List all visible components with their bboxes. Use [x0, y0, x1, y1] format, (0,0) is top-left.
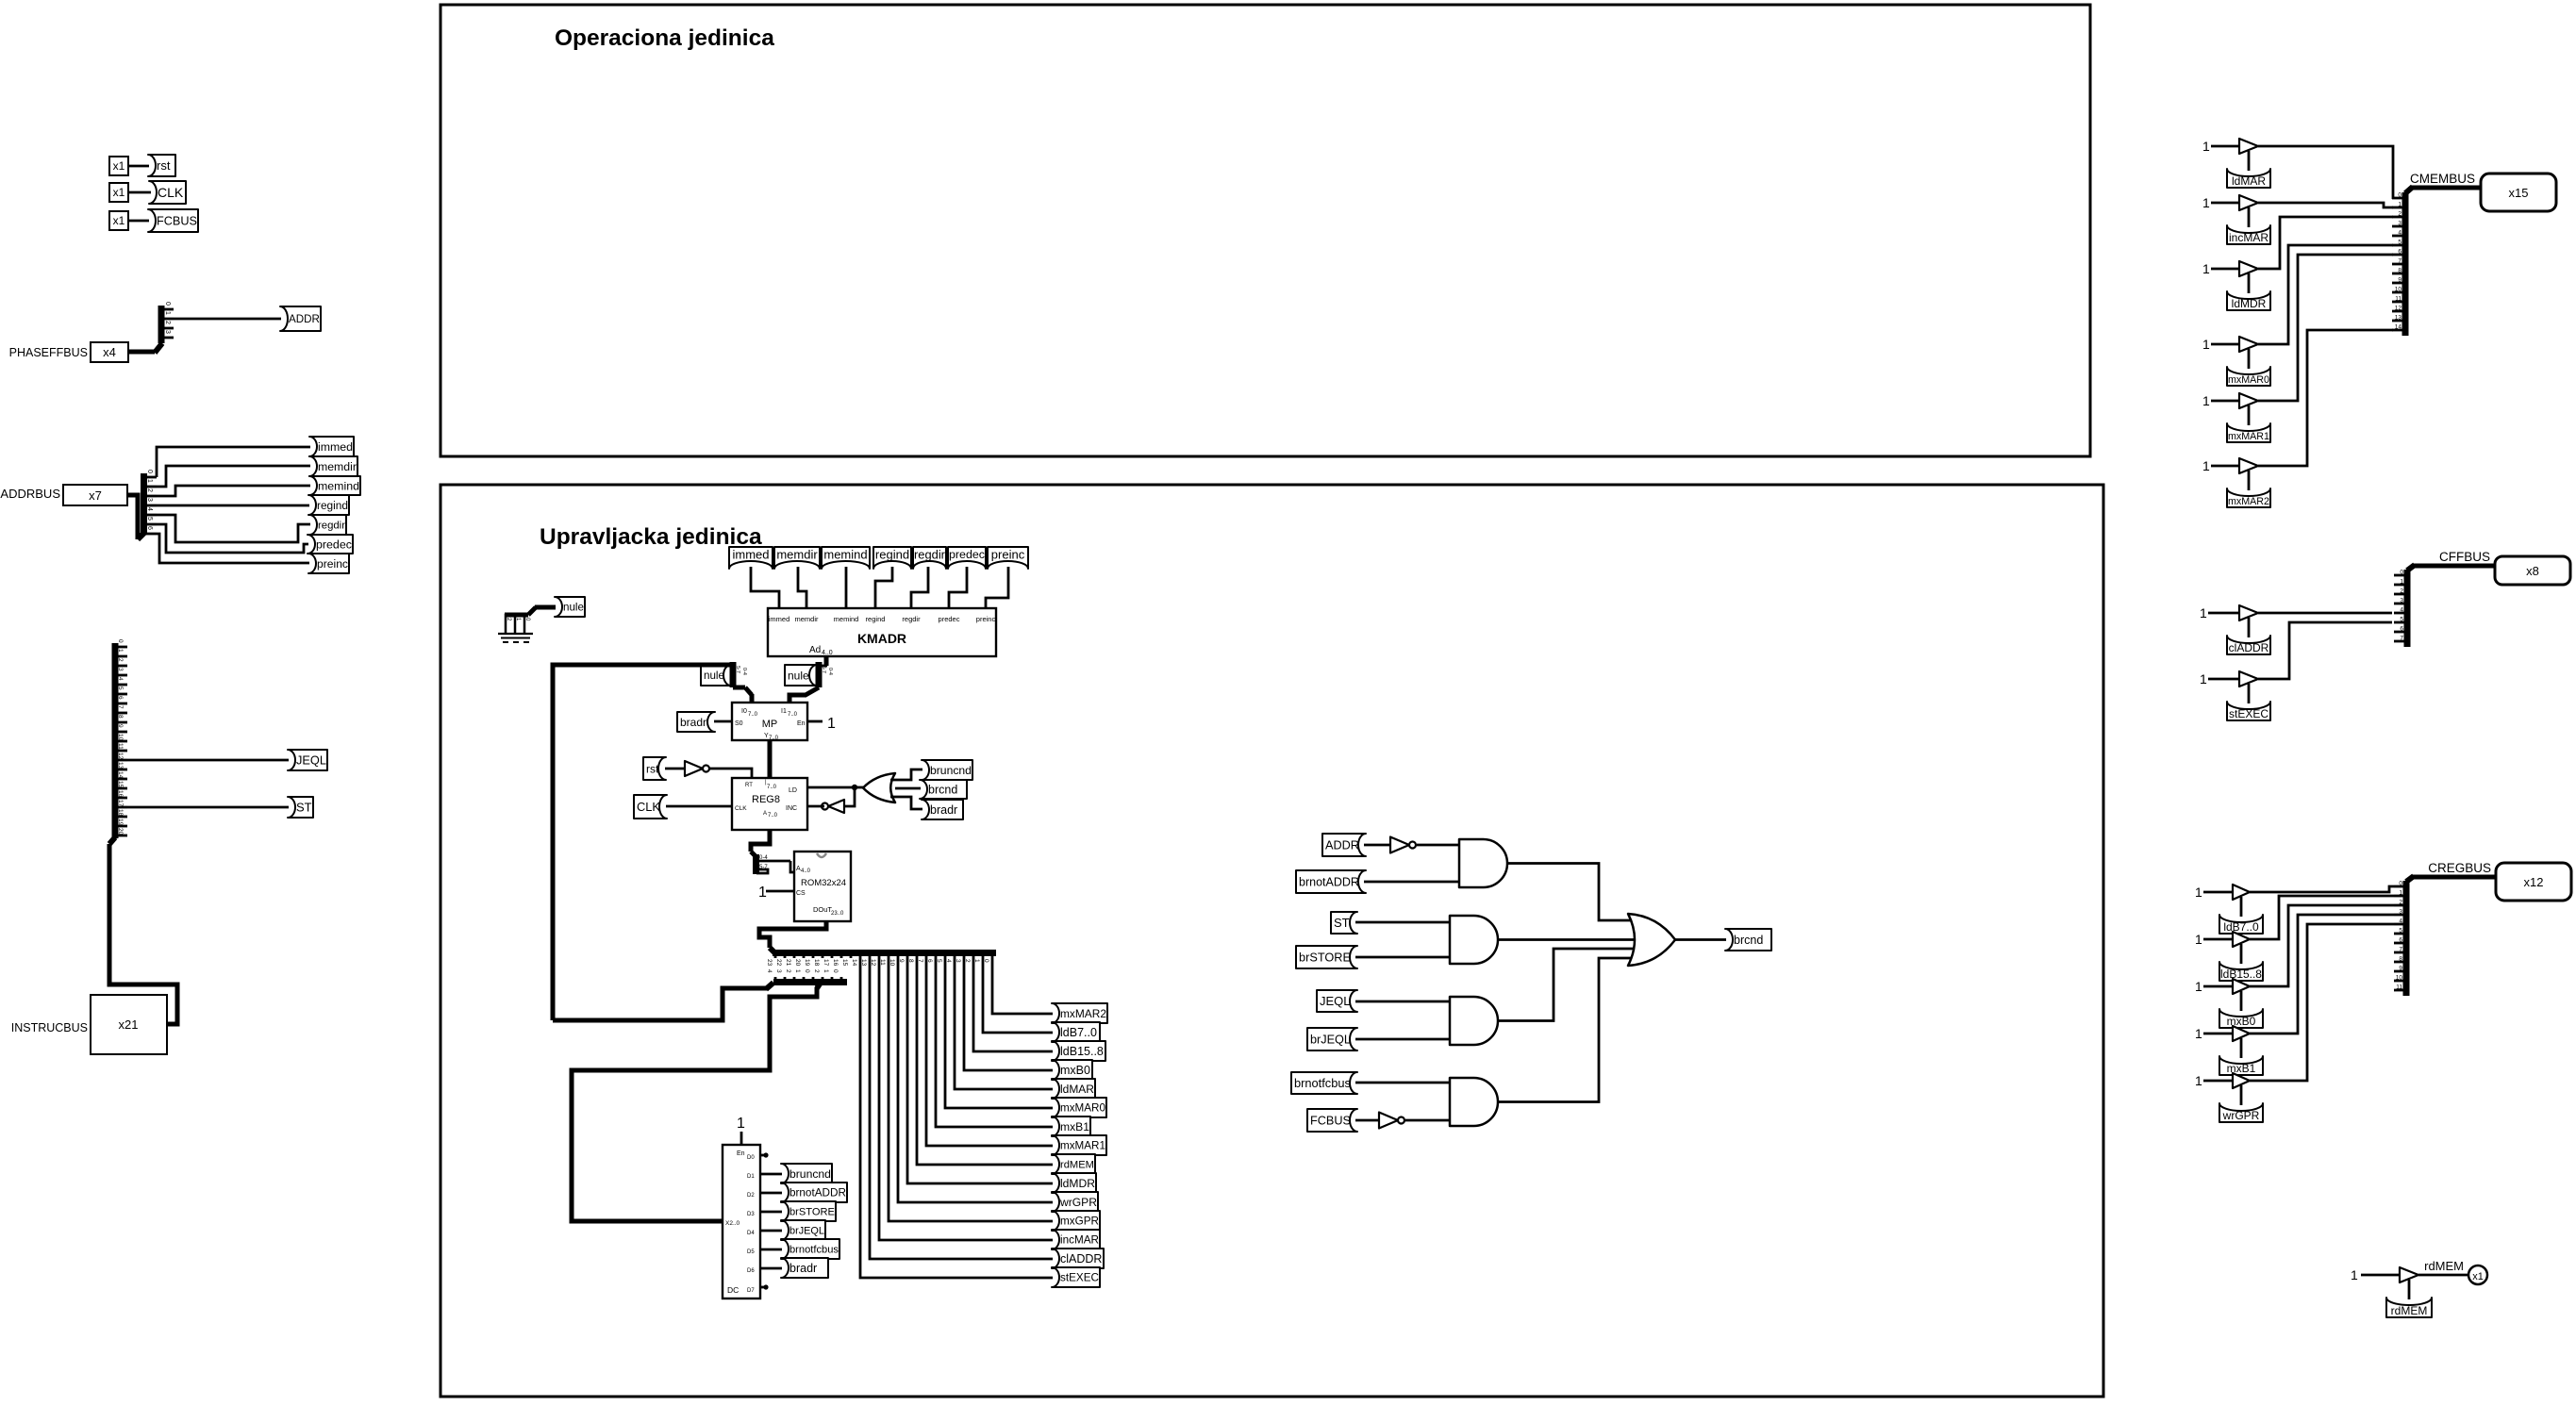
tunnel immed [309, 437, 354, 456]
svg-text:8: 8 [2399, 956, 2402, 963]
svg-text:4: 4 [766, 969, 773, 973]
svg-text:3: 3 [2398, 221, 2401, 227]
and gate 2 [1450, 916, 1498, 964]
wire DC D2 to brnotADDR [760, 1192, 782, 1195]
svg-text:1: 1 [2195, 1073, 2202, 1088]
tunnel FCBUS [148, 209, 198, 232]
svg-text:2: 2 [785, 969, 791, 973]
svg-text:DC: DC [727, 1285, 739, 1295]
svg-text:0-4: 0-4 [741, 668, 747, 675]
wire or to brcnd [1675, 938, 1726, 941]
and gate 1 [1459, 839, 1507, 887]
wire DC D1 to bruncnd [760, 1173, 782, 1176]
svg-text:RT: RT [745, 783, 753, 788]
svg-text:ldB15..8: ldB15..8 [1060, 1045, 1104, 1058]
svg-text:PHASEFFBUS: PHASEFFBUS [9, 346, 88, 359]
wire preinc to KMADR [986, 567, 1008, 609]
svg-text:13: 13 [117, 762, 124, 769]
svg-text:nule: nule [788, 669, 809, 682]
svg-text:7: 7 [2398, 258, 2401, 265]
inverter (INC) [828, 800, 844, 813]
svg-text:brnotADDR: brnotADDR [789, 1187, 846, 1199]
buffer ldB7..0 [2233, 885, 2250, 900]
svg-text:5: 5 [2400, 617, 2403, 623]
tunnel regdir [309, 515, 346, 535]
svg-text:ldMAR: ldMAR [1060, 1083, 1094, 1096]
wire bit3 to regind [157, 505, 309, 507]
svg-text:7: 7 [2400, 636, 2403, 642]
wire bit10 to wrGPR [898, 958, 1053, 1202]
svg-text:15: 15 [117, 781, 124, 788]
tunnel mxGPR [1052, 1211, 1100, 1231]
wire REG8 A to splitter [751, 830, 770, 852]
wire bit2 to ldB15..8 [973, 958, 1053, 1051]
splitter DC field (bits 18-16) [821, 979, 847, 985]
splitter REG8 A 0-4/5-7 [751, 852, 756, 857]
tunnel JEQL [288, 750, 327, 770]
svg-text:CS: CS [796, 890, 806, 897]
svg-text:0: 0 [146, 470, 153, 473]
svg-text:bruncnd: bruncnd [789, 1167, 831, 1181]
wire ROM DOut to splitter [759, 921, 826, 948]
svg-text:1: 1 [2202, 139, 2210, 154]
tunnel clADDR [1052, 1249, 1104, 1268]
svg-text:preinc: preinc [991, 547, 1025, 561]
svg-text:bradr: bradr [680, 716, 706, 729]
svg-text:x1: x1 [113, 214, 125, 227]
splitter CREGBUS 12-bit [2403, 881, 2410, 996]
wire bit6 to preinc [157, 534, 309, 563]
tunnel ldMAR (enable) [2227, 169, 2270, 188]
wire bradr to MP [714, 720, 732, 723]
tunnel brnotADDR (and1) [1296, 870, 1366, 893]
wire bit6 to mxB1 [936, 958, 1053, 1127]
svg-text:1: 1 [2195, 1026, 2202, 1041]
svg-text:rst: rst [157, 158, 171, 173]
output pin CREGBUS x12 [2496, 863, 2571, 901]
tunnel preinc [308, 554, 349, 573]
tunnel brSTORE (and2) [1296, 946, 1357, 968]
svg-text:11: 11 [2396, 984, 2402, 991]
tunnel predec (top row) [948, 547, 986, 569]
tunnel ldB7..0 [1052, 1022, 1100, 1042]
inverter (ADDR) [1390, 837, 1409, 853]
wire DC D3 to brSTORE [760, 1211, 782, 1214]
svg-text:memind: memind [834, 615, 859, 623]
and gate 4 [1450, 1078, 1498, 1126]
wire rdMEM out [2418, 1274, 2468, 1277]
wire splitter to ROM A [790, 861, 795, 872]
svg-text:3: 3 [775, 969, 782, 973]
svg-text:18: 18 [813, 959, 820, 967]
svg-text:1: 1 [2398, 202, 2401, 208]
svg-text:memind: memind [318, 479, 359, 492]
svg-text:10: 10 [117, 734, 124, 741]
svg-text:wrGPR: wrGPR [1059, 1196, 1097, 1209]
splitter CMEMBUS 15-bit [2402, 192, 2409, 336]
tunnel brSTORE (DC out) [781, 1201, 836, 1221]
svg-text:I0: I0 [741, 708, 747, 715]
wire and4 to or [1498, 958, 1641, 1102]
tunnel nule (ground) [555, 597, 585, 617]
tunnel clADDR (enable) [2227, 636, 2270, 654]
tunnel ldB15..8 [1052, 1041, 1105, 1061]
svg-text:x4: x4 [103, 345, 116, 359]
svg-text:0: 0 [804, 969, 810, 973]
svg-text:1: 1 [758, 885, 767, 901]
tunnel mxMAR0 (enable) [2227, 367, 2270, 386]
svg-text:brSTORE: brSTORE [789, 1207, 835, 1218]
wire bit12 to incMAR [879, 958, 1053, 1240]
wire junction to OR output [855, 786, 864, 789]
tunnel rst (REG8) [643, 757, 666, 780]
svg-text:FCBUS: FCBUS [157, 215, 197, 228]
tunnel CLK [149, 181, 186, 204]
svg-text:Ad: Ad [809, 645, 821, 655]
wire ldMDR to bit2 [2258, 217, 2393, 269]
svg-text:1: 1 [146, 479, 153, 483]
svg-text:3: 3 [146, 498, 153, 502]
svg-text:9: 9 [117, 724, 124, 728]
tunnel brJEQL (and3) [1307, 1028, 1357, 1050]
svg-text:CREGBUS: CREGBUS [2428, 861, 2491, 875]
tunnel brcnd (OR) [920, 780, 967, 799]
wire ldMAR to bit0 [2258, 146, 2393, 199]
svg-text:brcnd: brcnd [928, 784, 957, 797]
buffer mxMAR0 [2239, 337, 2258, 352]
tunnel mxB0 [1052, 1060, 1092, 1080]
tunnel rdMEM [1052, 1154, 1095, 1174]
wire DC D4 to brJEQL [760, 1230, 782, 1232]
svg-text:ldB7..0: ldB7..0 [2223, 920, 2259, 934]
tunnel ldB15..8 (enable) [2219, 962, 2263, 981]
svg-text:brcnd: brcnd [1734, 934, 1763, 947]
tunnel immed (top row) [729, 547, 773, 569]
and gate 3 [1450, 997, 1498, 1045]
svg-text:0: 0 [164, 302, 171, 306]
tunnel bradr (OR) [922, 800, 963, 819]
wire bit3 to mxB0 [964, 958, 1053, 1070]
tunnel brnotfcbus (DC out) [781, 1239, 839, 1259]
svg-text:5-7: 5-7 [735, 666, 740, 673]
svg-text:mxB0: mxB0 [1060, 1064, 1090, 1077]
wire ldB15..8 to bit1 [2250, 896, 2394, 939]
svg-text:x1: x1 [2472, 1271, 2484, 1282]
wire x1-rst [128, 165, 149, 168]
svg-text:18: 18 [117, 809, 124, 817]
svg-text:brJEQL: brJEQL [789, 1225, 824, 1236]
svg-text:11: 11 [2395, 296, 2401, 303]
tunnel ADDR [280, 306, 321, 331]
svg-text:6: 6 [117, 696, 124, 700]
svg-text:1: 1 [2195, 932, 2202, 947]
svg-text:10: 10 [2396, 975, 2403, 982]
tunnel FCBUS (and4) [1307, 1109, 1357, 1132]
svg-text:x15: x15 [2509, 186, 2529, 200]
svg-text:rdMEM: rdMEM [2424, 1259, 2464, 1273]
wire inverter to and1 [1417, 844, 1460, 847]
input pin x1 (rst) [109, 157, 128, 175]
wire mxMAR0 to bit5 [2258, 245, 2393, 344]
svg-text:1: 1 [2200, 671, 2207, 686]
tunnel nule (MP I0) [701, 665, 731, 686]
tunnel JEQL (and3) [1317, 990, 1357, 1012]
decoder DC [723, 1145, 760, 1298]
svg-text:9: 9 [2398, 277, 2401, 284]
wire ldB7..0 to bit0 [2250, 886, 2394, 892]
wire bit0 to mxMAR2 [992, 958, 1053, 1014]
svg-text:1: 1 [2202, 261, 2210, 276]
svg-text:INC: INC [786, 805, 797, 812]
wire bit1 to memdir [157, 466, 310, 487]
ROM32x24 [794, 852, 851, 921]
svg-text:ldB7..0: ldB7..0 [1060, 1026, 1097, 1039]
svg-text:3: 3 [2399, 909, 2402, 916]
tunnel mxMAR1 (enable) [2227, 423, 2270, 442]
svg-text:x12: x12 [2524, 875, 2544, 889]
wire stEXEC to bit5 [2258, 622, 2392, 679]
wire bit7 to mxMAR1 [926, 958, 1053, 1146]
wire bit0 to immed [157, 447, 310, 477]
svg-text:x1: x1 [113, 159, 125, 173]
wire mxMAR1 to bit6 [2258, 255, 2393, 401]
wire mxMAR2 to bit14 [2258, 330, 2393, 466]
svg-text:9: 9 [2399, 966, 2402, 972]
tunnel predec [307, 535, 353, 554]
svg-text:2: 2 [2398, 211, 2401, 218]
svg-text:brnotADDR: brnotADDR [1299, 876, 1359, 889]
wire and1 to or [1507, 864, 1641, 921]
svg-text:DOuT: DOuT [813, 905, 832, 914]
tunnel ADDR (and1) [1322, 834, 1366, 856]
svg-text:preinc: preinc [976, 615, 996, 623]
svg-text:4: 4 [146, 507, 153, 511]
svg-text:ldB15..8: ldB15..8 [2220, 968, 2262, 981]
wire x7 to splitter [127, 495, 138, 539]
svg-text:x7: x7 [89, 488, 102, 503]
tunnel ldMDR (enable) [2227, 291, 2270, 310]
svg-text:1: 1 [737, 1116, 745, 1132]
splitter PHASEFFBUS 4-bit [155, 343, 162, 353]
svg-text:mxMAR1: mxMAR1 [2228, 431, 2269, 442]
svg-text:1: 1 [2202, 337, 2210, 352]
svg-text:nule: nule [704, 670, 724, 682]
svg-text:4: 4 [117, 677, 124, 681]
svg-text:LD: LD [789, 787, 797, 794]
wire x1-CLK [128, 191, 151, 194]
tunnel brcnd [1725, 929, 1771, 951]
tunnel ldMAR [1052, 1079, 1095, 1099]
tunnel nule (MP I1) [785, 665, 817, 686]
svg-text:2: 2 [164, 321, 171, 324]
buffer ldMDR [2239, 261, 2258, 276]
svg-text:FCBUS: FCBUS [1310, 1115, 1351, 1128]
inverter (rst) [685, 761, 703, 776]
wire bit1 to ldB7..0 [983, 958, 1053, 1033]
wire brJEQL to and3 [1355, 1038, 1451, 1041]
svg-text:rst: rst [646, 762, 659, 775]
svg-text:4: 4 [2398, 230, 2401, 237]
svg-text:brnotfcbus: brnotfcbus [789, 1245, 839, 1256]
output pin rdMEM x1 [2468, 1265, 2487, 1284]
svg-text:ADDR: ADDR [289, 313, 320, 325]
tunnel mxMAR1 [1052, 1135, 1106, 1155]
tunnel bruncnd (OR) [922, 760, 972, 780]
wire OR in1 to bruncnd [890, 769, 922, 780]
svg-text:D0: D0 [747, 1155, 755, 1161]
svg-text:bradr: bradr [789, 1262, 817, 1275]
wire memdir to KMADR [798, 567, 806, 609]
svg-text:22: 22 [775, 959, 782, 967]
svg-text:KMADR: KMADR [857, 631, 906, 646]
svg-text:3: 3 [117, 668, 124, 671]
inverter (FCBUS) [1379, 1113, 1398, 1129]
svg-text:13: 13 [2395, 315, 2402, 322]
svg-text:2: 2 [2400, 588, 2403, 595]
svg-text:5: 5 [117, 686, 124, 690]
svg-text:1: 1 [2351, 1267, 2358, 1282]
wire bit13 to clADDR [870, 958, 1053, 1259]
wire CMEMBUS [2412, 186, 2481, 190]
output pin CFFBUS x8 [2495, 556, 2570, 585]
wire bit9 to ldMDR [907, 958, 1053, 1183]
wire predec to KMADR [949, 567, 967, 609]
wire and2 to or [1498, 938, 1634, 941]
tunnel bradr (MP S0) [677, 712, 715, 732]
junction [852, 785, 857, 790]
svg-text:0: 0 [2400, 570, 2403, 576]
svg-text:0: 0 [117, 639, 124, 643]
tunnel mxB1 (enable) [2219, 1056, 2263, 1075]
svg-text:mxMAR0: mxMAR0 [1060, 1102, 1105, 1115]
svg-text:7: 7 [2399, 947, 2402, 953]
svg-text:clADDR: clADDR [2229, 641, 2269, 654]
svg-text:ST: ST [296, 801, 312, 815]
svg-text:1: 1 [794, 969, 801, 973]
wire bit2 to memind [157, 486, 310, 496]
wire bit5 to mxMAR0 [945, 958, 1053, 1108]
subcircuit KMADR [768, 608, 996, 656]
ground [498, 633, 533, 635]
svg-text:regind: regind [317, 499, 348, 512]
svg-text:memind: memind [823, 547, 867, 561]
wire junction to INC inverter [844, 787, 855, 806]
wire DC D6 to bradr [760, 1267, 782, 1270]
buffer mxB1 [2233, 1026, 2250, 1041]
tunnel CLK (REG8) [634, 795, 667, 819]
buffer mxMAR1 [2239, 393, 2258, 408]
svg-text:8: 8 [2398, 268, 2401, 274]
tunnel memdir (top row) [774, 547, 820, 569]
svg-text:3: 3 [2400, 598, 2403, 604]
svg-text:6: 6 [2400, 626, 2403, 633]
svg-text:bradr: bradr [930, 803, 957, 817]
svg-text:15: 15 [841, 959, 848, 967]
svg-text:predec: predec [939, 615, 960, 623]
wire CLK to REG8 [666, 805, 732, 808]
frame Upravljacka jedinica [440, 485, 2103, 1397]
svg-text:1: 1 [2202, 393, 2210, 408]
svg-text:preinc: preinc [317, 557, 348, 571]
svg-text:1: 1 [2195, 885, 2202, 900]
svg-text:3: 3 [164, 330, 171, 334]
tunnel regdir (top row) [913, 547, 946, 569]
svg-text:7..0: 7..0 [767, 785, 777, 790]
wire brnotfcbus to and4 [1355, 1082, 1451, 1084]
svg-text:1: 1 [117, 649, 124, 653]
svg-text:12: 12 [2395, 306, 2402, 312]
svg-text:11: 11 [117, 743, 124, 750]
svg-text:16: 16 [832, 959, 839, 967]
svg-text:14: 14 [851, 959, 857, 967]
svg-text:CMEMBUS: CMEMBUS [2410, 172, 2475, 186]
splitter nule 3-bit to ground [506, 615, 528, 633]
svg-text:D6: D6 [747, 1268, 755, 1274]
buffer clADDR [2239, 605, 2258, 620]
tunnel brJEQL (DC out) [781, 1220, 825, 1240]
wire JEQL to and3 [1355, 1001, 1451, 1003]
wire REG8 LD [807, 786, 855, 789]
svg-text:INSTRUCBUS: INSTRUCBUS [11, 1021, 88, 1034]
tunnel preinc (top row) [988, 547, 1028, 569]
svg-text:mxMAR2: mxMAR2 [1060, 1007, 1106, 1020]
splitter MP I0 merge [730, 662, 737, 687]
svg-text:x21: x21 [119, 1017, 139, 1032]
svg-text:stEXEC: stEXEC [1060, 1272, 1099, 1284]
svg-text:19: 19 [804, 959, 810, 967]
svg-text:regdir: regdir [902, 615, 921, 623]
wire brnotADDR to and1 [1364, 881, 1460, 884]
svg-text:ldMDR: ldMDR [1060, 1177, 1095, 1190]
tunnel brnotfcbus (and4) [1291, 1072, 1357, 1094]
svg-text:0-4: 0-4 [827, 668, 833, 675]
tunnel wrGPR [1052, 1192, 1098, 1212]
wire immed to KMADR [751, 567, 779, 609]
svg-text:CLK: CLK [637, 800, 660, 814]
svg-text:0: 0 [2399, 881, 2402, 887]
frame Operaciona jedinica [440, 5, 2090, 456]
svg-text:memdir: memdir [318, 460, 357, 473]
tunnel bradr (DC out) [781, 1258, 828, 1278]
wire brSTORE to and2 [1355, 956, 1451, 959]
wire nule [535, 605, 556, 610]
svg-text:19: 19 [117, 819, 124, 826]
buffer wrGPR [2233, 1073, 2250, 1088]
wire x4 to splitter [128, 350, 155, 355]
wire inverter to and4 [1405, 1119, 1451, 1122]
input pin x1 (FCBUS) [109, 211, 128, 230]
wire bit4 to regdir [157, 515, 310, 542]
buffer mxMAR2 [2239, 458, 2258, 473]
svg-text:clADDR: clADDR [1060, 1252, 1102, 1265]
svg-text:nule: nule [563, 602, 584, 614]
svg-text:1: 1 [2399, 890, 2402, 897]
svg-text:7..0: 7..0 [768, 813, 778, 819]
svg-text:4: 4 [2400, 607, 2403, 614]
wire splitter to MP I0 [750, 694, 755, 703]
svg-text:1: 1 [827, 716, 836, 732]
wire mxB1 to bit3 [2250, 915, 2394, 1034]
svg-text:23: 23 [766, 959, 773, 967]
svg-text:23..0: 23..0 [831, 911, 844, 917]
svg-text:CFFBUS: CFFBUS [2439, 550, 2490, 564]
tunnel regind [308, 495, 349, 515]
svg-text:bruncnd: bruncnd [930, 764, 972, 777]
svg-text:wrGPR: wrGPR [2222, 1109, 2260, 1122]
svg-text:0: 0 [2398, 192, 2401, 199]
wire regdir to KMADR [911, 567, 928, 609]
svg-text:mxB1: mxB1 [1060, 1120, 1089, 1133]
